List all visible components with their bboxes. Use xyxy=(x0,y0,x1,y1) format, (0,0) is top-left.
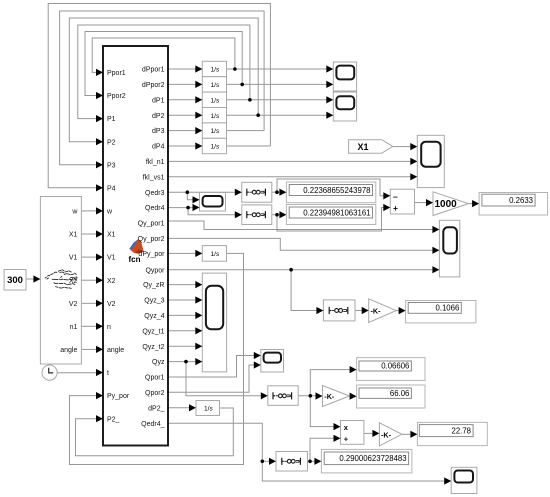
wire Qedr4 stub xyxy=(168,207,193,209)
input port labels of fcn block xyxy=(106,70,130,423)
svg-text:dP2_: dP2_ xyxy=(148,405,164,412)
rate transition 1 Qedr3 xyxy=(242,182,272,202)
svg-text:t: t xyxy=(107,370,109,377)
gain 1000 xyxy=(433,192,469,216)
wire dP2_ to integrator8 xyxy=(168,407,190,409)
wire feedback loop P4 xyxy=(48,4,270,188)
svg-text:Qyz_t2: Qyz_t2 xyxy=(142,344,164,351)
integrator 6 dP4 1/s xyxy=(202,138,226,153)
svg-text:P4: P4 xyxy=(107,185,116,192)
svg-text:Qpor1: Qpor1 xyxy=(145,375,165,382)
arrowheads rate3 chain xyxy=(195,250,405,314)
wire Qyz_4 to scope F in3 xyxy=(168,314,196,316)
svg-text:0.06606: 0.06606 xyxy=(381,362,409,371)
wire Qypor to scope E in3 xyxy=(168,269,433,271)
wire gain K5 to display 22.78 xyxy=(402,433,411,435)
svg-text:X2: X2 xyxy=(69,278,78,285)
svg-text:+: + xyxy=(393,203,398,213)
integrator 5 dP3 1/s xyxy=(202,123,226,138)
wire Qy_por1 to scope E in1 xyxy=(168,221,433,230)
svg-text:1/s: 1/s xyxy=(211,82,221,89)
svg-text:Qpor2: Qpor2 xyxy=(145,390,165,397)
arrowheads rate4 chain xyxy=(261,366,357,400)
integrator 3 dP1 1/s xyxy=(202,92,226,107)
goto tag X1 xyxy=(349,140,393,154)
wire Qpor2 to scope G in2 xyxy=(168,365,255,392)
wire Qedr4_ down xyxy=(168,423,262,461)
wire Qedr4_ branch to scope H xyxy=(262,461,445,481)
display 0.2633 xyxy=(479,193,547,216)
integrator 2 dPpor2 1/s xyxy=(202,77,226,92)
svg-text:P3: P3 xyxy=(107,162,116,169)
wire integrator6 stub xyxy=(227,145,271,147)
svg-text:Qedr4_: Qedr4_ xyxy=(141,421,164,428)
svg-text:22.78: 22.78 xyxy=(451,426,471,435)
svg-text:1/s: 1/s xyxy=(211,67,221,74)
svg-text:dP2: dP2 xyxy=(152,113,165,120)
svg-text:1/s: 1/s xyxy=(211,113,221,120)
scope F xyxy=(202,273,226,372)
wire Qy_zR to scope F in1 xyxy=(168,284,196,286)
wire dP2 to integrator xyxy=(168,114,196,116)
wire subsystem w to fcn xyxy=(81,210,96,212)
svg-text:–: – xyxy=(393,191,398,201)
svg-text:angle: angle xyxy=(60,347,77,354)
svg-text:1/s: 1/s xyxy=(211,251,221,258)
svg-text:P2: P2 xyxy=(107,139,116,146)
wire integrator2 to scope A in2 xyxy=(227,83,328,85)
wire dPpor1 to integrator xyxy=(168,68,196,70)
svg-text:dPpor1: dPpor1 xyxy=(142,67,165,74)
wire dPy_por to integrator7 xyxy=(168,252,196,254)
svg-text:66.06: 66.06 xyxy=(390,389,410,398)
svg-text:1/s: 1/s xyxy=(211,128,221,135)
wire to rate5 xyxy=(262,460,269,462)
MATLAB logo xyxy=(129,239,144,253)
wire Qedr4 route to sum plus xyxy=(277,208,384,232)
svg-text:dP1: dP1 xyxy=(152,97,165,104)
display 0.22368655243978 xyxy=(286,182,375,203)
arrowhead into subsystem xyxy=(33,275,40,282)
wire rate1 out to display1 xyxy=(272,191,280,193)
svg-text:w: w xyxy=(106,209,113,216)
display 0.06606 xyxy=(357,358,425,381)
arrowheads into scope E xyxy=(432,226,439,273)
svg-text:fkl_n1: fkl_n1 xyxy=(146,159,165,166)
wire integrator4 to scope B in2 xyxy=(227,114,328,116)
wire feedback loop P2 xyxy=(69,18,258,142)
svg-text:0.2633: 0.2633 xyxy=(509,196,533,205)
svg-text:Qy_por1: Qy_por1 xyxy=(138,221,165,228)
wire rate3 to gain K3 xyxy=(355,310,362,312)
svg-text:X1: X1 xyxy=(357,142,368,152)
wire Qedr4 branch to rate1 block2 xyxy=(188,208,235,215)
sum block xyxy=(390,189,414,214)
svg-text:angle: angle xyxy=(107,347,124,354)
svg-text:1/s: 1/s xyxy=(211,144,221,151)
rate transition 4 Qyz xyxy=(268,386,298,406)
svg-text:1/s: 1/s xyxy=(204,406,214,413)
scope D xyxy=(200,193,226,212)
integrator 1 dPpor1 1/s xyxy=(202,61,226,76)
wire dP1 to integrator xyxy=(168,99,196,101)
wire gain K3 to display 0.1066 xyxy=(396,310,399,312)
wire Qyz_t1 to scope F in4 xyxy=(168,330,196,332)
arrowheads at fcn inputs xyxy=(96,69,103,423)
svg-text:V2: V2 xyxy=(107,301,116,308)
svg-text:n: n xyxy=(107,324,111,331)
svg-text:dP4: dP4 xyxy=(152,144,165,151)
svg-text:V1: V1 xyxy=(69,255,78,262)
svg-text:Qyz_3: Qyz_3 xyxy=(144,298,164,305)
svg-text:0.1066: 0.1066 xyxy=(435,304,459,313)
wire subsystem angle to fcn xyxy=(81,348,96,350)
svg-text:P1: P1 xyxy=(107,116,116,123)
arrowheads into scope A and B xyxy=(326,65,333,118)
clock xyxy=(42,365,57,380)
wire integrator5 stub xyxy=(227,130,265,132)
wire subsystem V1 to fcn xyxy=(81,256,96,258)
svg-text:V2: V2 xyxy=(69,301,78,308)
wire feedback loop P3 xyxy=(60,11,265,165)
svg-text:1000: 1000 xyxy=(435,199,458,210)
svg-text:Qyz: Qyz xyxy=(152,359,165,366)
wire rate5 to display 0.29 xyxy=(308,460,316,462)
svg-text:X1: X1 xyxy=(107,232,116,239)
wire subsystem X2 to fcn xyxy=(81,279,96,281)
wire subsystem V2 to fcn xyxy=(81,302,96,304)
svg-text:-K-: -K- xyxy=(324,392,335,401)
wire subsystem X1 to fcn xyxy=(81,233,96,235)
wire Qypor branch to rate3 xyxy=(291,270,317,311)
integrator 7 dPy_por 1/s xyxy=(202,246,226,262)
wire junction to product x input xyxy=(310,396,334,427)
wire P2_ feedback loop xyxy=(76,408,234,456)
wire junction to display 0.06606 xyxy=(310,370,350,396)
wire integrator3 to scope B in1 xyxy=(227,99,328,101)
wire gain K4 to display 66.06 xyxy=(349,395,352,397)
display 0.29000623728483 xyxy=(321,449,412,473)
subsystem output labels xyxy=(60,209,78,355)
svg-text:Qy_zR: Qy_zR xyxy=(143,282,164,289)
MATLAB Function block fcn xyxy=(103,46,168,446)
svg-text:300: 300 xyxy=(7,275,23,286)
wire product to gain K5 xyxy=(364,432,373,434)
arrowheads product chain xyxy=(334,423,418,442)
scope H xyxy=(451,467,477,493)
wire gain 1000 to display 0.2633 xyxy=(469,203,473,205)
wire fkl_n1 to scope C in2 xyxy=(168,160,411,162)
svg-text:0.29000623728483: 0.29000623728483 xyxy=(339,454,406,463)
wire Qyz to scope F in6 xyxy=(168,361,196,363)
wire dPpor2 to integrator xyxy=(168,83,196,85)
wire Qedr3 main xyxy=(168,191,236,193)
wire feedback loop Ppor2 xyxy=(85,32,242,96)
svg-text:0.22394981063161: 0.22394981063161 xyxy=(303,208,370,217)
arrowheads into scope C xyxy=(410,143,417,180)
arrowheads bottom chain xyxy=(189,404,451,484)
arrowheads into scope D xyxy=(193,196,200,211)
arrowheads into integrators 1-6 xyxy=(195,65,202,149)
svg-text:0.22368655243978: 0.22368655243978 xyxy=(303,186,370,195)
rate transition 5 Qedr4_ xyxy=(276,452,308,472)
svg-text:Ppor2: Ppor2 xyxy=(107,93,126,100)
constant 300 xyxy=(4,270,26,291)
wire X1 tag to scope C in1 xyxy=(393,146,411,148)
scope G xyxy=(261,350,284,373)
svg-text:Qypor: Qypor xyxy=(145,267,165,274)
wire dP4 to integrator xyxy=(168,145,196,147)
svg-text:dP3: dP3 xyxy=(152,128,165,135)
svg-text:dPy_por: dPy_por xyxy=(138,251,165,258)
wire constant 300 to subsystem xyxy=(26,278,34,280)
svg-text:V1: V1 xyxy=(107,255,116,262)
gain K3 xyxy=(369,299,396,323)
product block xyxy=(341,421,364,445)
svg-text:-K-: -K- xyxy=(371,307,382,316)
wire rate4 to gain K4 xyxy=(298,395,316,397)
wire integrator1 to scope A in1 xyxy=(227,68,328,70)
svg-text:Qy_por2: Qy_por2 xyxy=(138,236,165,243)
gain K5 xyxy=(379,423,401,446)
wire dP3 to integrator xyxy=(168,130,196,132)
display 0.1066 xyxy=(406,301,476,323)
wire Qyz branch to rate4 xyxy=(186,362,262,396)
svg-text:Qedr4: Qedr4 xyxy=(145,205,165,212)
svg-text:n1: n1 xyxy=(70,324,78,331)
wire Py_por feedback loop xyxy=(70,253,244,464)
subsystem block source xyxy=(40,197,81,365)
scope B xyxy=(333,92,356,121)
display 22.78 xyxy=(417,422,487,445)
svg-text:fkl_vs1: fkl_vs1 xyxy=(143,174,165,181)
svg-text:1/s: 1/s xyxy=(211,97,221,104)
wire Qyz_3 to scope F in2 xyxy=(168,299,196,301)
wire clock to t input xyxy=(57,372,97,374)
wire Qyz_t2 to scope F in5 xyxy=(168,345,196,347)
wire feedback loop Ppor1 xyxy=(92,38,235,72)
integrator 8 dP2_ 1/s xyxy=(196,401,220,416)
svg-text:Qyz_4: Qyz_4 xyxy=(144,313,164,320)
svg-text:X1: X1 xyxy=(69,232,78,239)
integrator 4 dP2 1/s xyxy=(202,108,226,123)
display 66.06 xyxy=(357,385,425,408)
svg-text:Ppor1: Ppor1 xyxy=(107,70,126,77)
svg-text:w: w xyxy=(71,209,78,216)
scope C xyxy=(417,135,444,187)
wire Qy_por2 to scope E in2 xyxy=(168,238,433,250)
arrowheads into scope G xyxy=(254,352,261,369)
output port labels of fcn block xyxy=(138,67,166,428)
svg-text:P2_: P2_ xyxy=(107,416,120,423)
svg-text:Qyz_t1: Qyz_t1 xyxy=(142,328,164,335)
rate transition 2 Qedr4 xyxy=(242,205,272,225)
svg-text:X2: X2 xyxy=(107,278,116,285)
wire feedback loop P1 xyxy=(78,25,250,119)
display 0.22394981063161 xyxy=(286,205,375,225)
arrowheads into scope F xyxy=(195,281,202,365)
wire Qedr3 branch to scope D in1 xyxy=(187,192,193,200)
wire subsystem n1 to fcn xyxy=(81,325,96,327)
rate transition 3 Qypor xyxy=(323,300,355,321)
wire branch to product plus input xyxy=(310,438,334,461)
wire sum to gain 1000 xyxy=(415,202,427,204)
subsystem icon sketch xyxy=(45,270,78,289)
wire rate2 out to display2 xyxy=(272,214,280,216)
wire fkl_vs1 to scope C in3 xyxy=(168,176,411,178)
wire Qedr3 route to sum minus xyxy=(277,179,384,196)
svg-text:Py_por: Py_por xyxy=(107,393,130,400)
scope A xyxy=(333,62,356,91)
arrowheads into rate1 rate2 and displays and sum xyxy=(235,189,479,219)
svg-text:-K-: -K- xyxy=(381,430,392,439)
svg-text:Qedr3: Qedr3 xyxy=(145,190,165,197)
scope E xyxy=(439,220,459,277)
svg-text:+: + xyxy=(344,434,349,443)
wire Qpor1 to scope G in1 xyxy=(168,356,255,378)
svg-text:dPpor2: dPpor2 xyxy=(142,82,165,89)
junction dots xyxy=(184,67,312,463)
gain K4 xyxy=(323,386,350,407)
